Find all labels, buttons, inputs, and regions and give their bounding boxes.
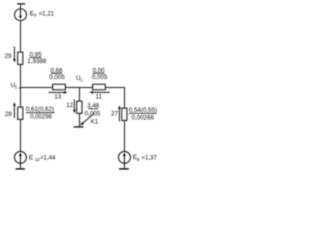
svg-text:0,00266: 0,00266 [132, 114, 155, 121]
svg-text:0,005: 0,005 [92, 74, 108, 81]
svg-text:0,005: 0,005 [49, 74, 65, 81]
svg-text:0,61(0,62): 0,61(0,62) [26, 106, 54, 113]
svg-text:11: 11 [95, 94, 102, 101]
svg-text:29: 29 [5, 53, 12, 60]
svg-text:=1,37: =1,37 [141, 154, 157, 161]
svg-text:13: 13 [54, 94, 61, 101]
svg-text:0,005: 0,005 [85, 110, 101, 117]
svg-text:0,00298: 0,00298 [30, 115, 52, 121]
svg-text:0,54(0,55): 0,54(0,55) [129, 107, 157, 114]
svg-text:=1,44: =1,44 [40, 155, 56, 162]
svg-text:3,48: 3,48 [87, 103, 100, 110]
svg-text:K1: K1 [91, 118, 99, 125]
svg-text:27: 27 [111, 110, 118, 117]
svg-text:28: 28 [5, 111, 12, 118]
svg-text:=1,21: =1,21 [39, 11, 55, 18]
svg-text:12: 12 [66, 102, 73, 109]
svg-text:1,9388: 1,9388 [27, 58, 46, 65]
svg-text:E: E [29, 154, 34, 161]
